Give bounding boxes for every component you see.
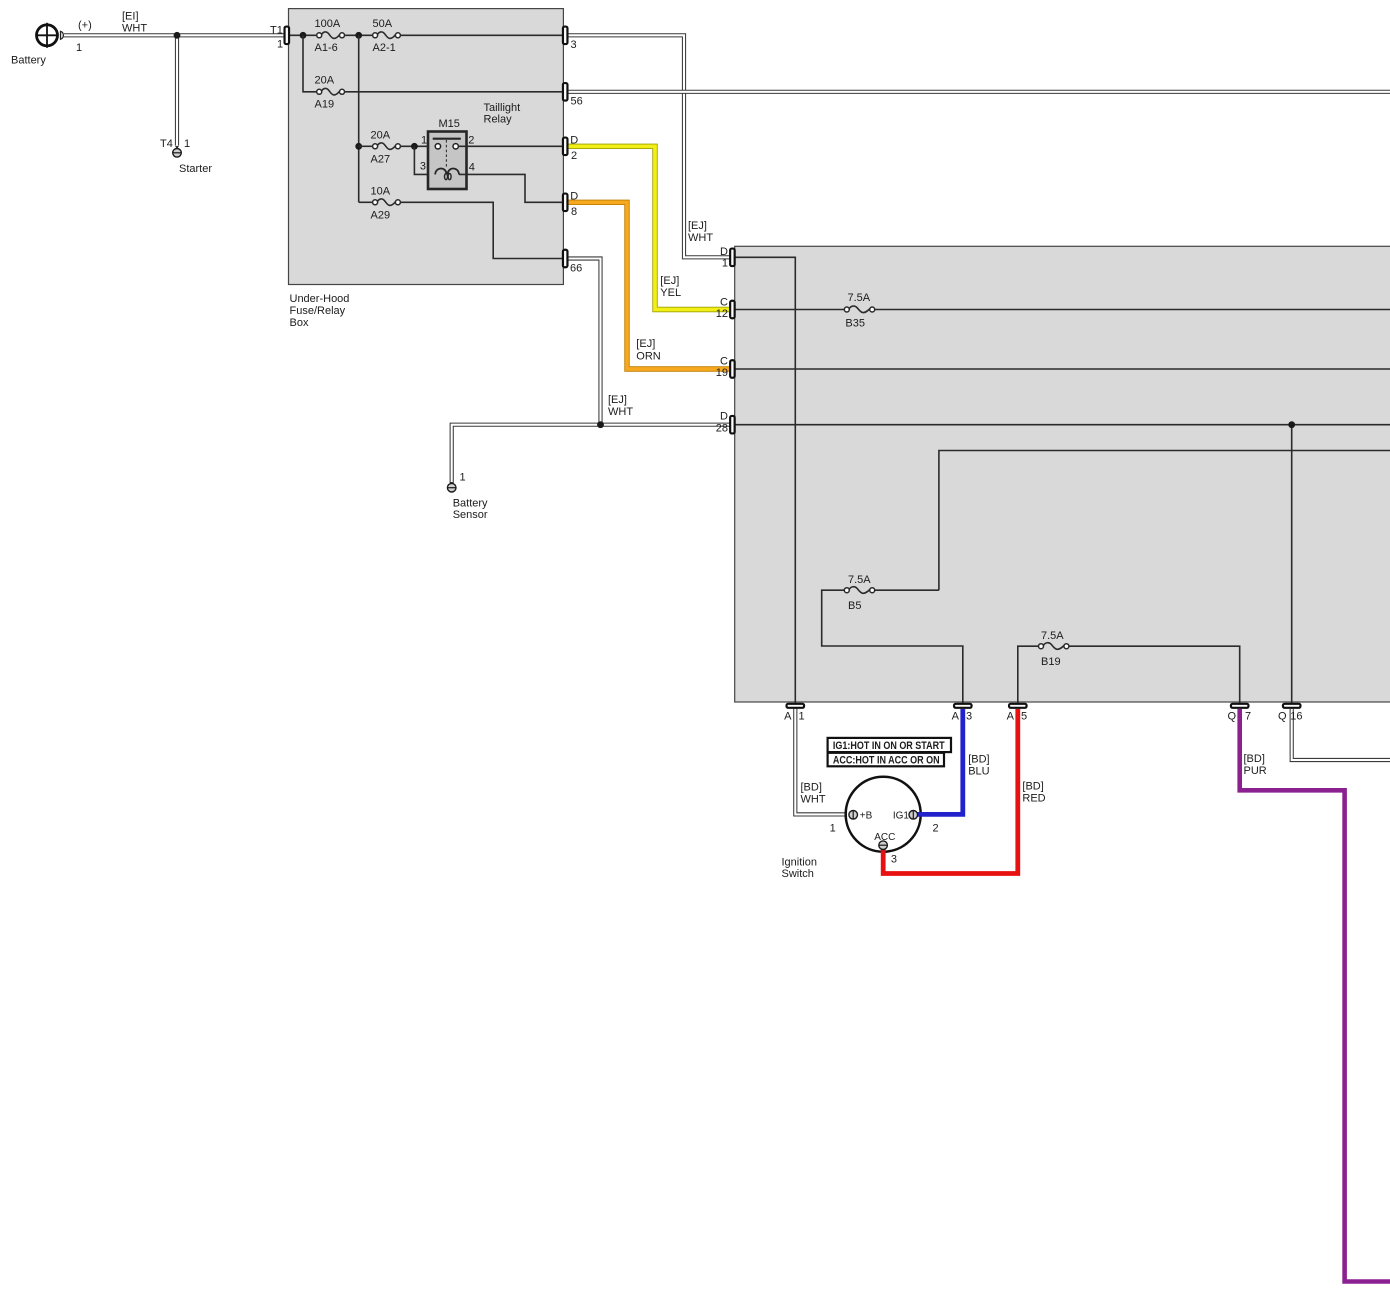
svg-text:WHT: WHT — [122, 23, 147, 35]
svg-text:4: 4 — [469, 162, 475, 174]
yellow wire D2 to C12 — [566, 146, 732, 309]
svg-text:1: 1 — [277, 39, 283, 51]
orange wire D8 to C19 — [566, 202, 732, 369]
under-hood fuse/relay box label — [290, 293, 350, 329]
pin C19 — [716, 356, 735, 380]
ignition switch caption — [782, 857, 817, 881]
svg-text:2: 2 — [468, 135, 474, 147]
svg-text:[EJ]: [EJ] — [636, 338, 655, 350]
svg-text:(+): (+) — [78, 20, 92, 32]
svg-text:20A: 20A — [315, 75, 335, 87]
svg-text:Ignition: Ignition — [782, 857, 817, 869]
ignition switch terminal labels — [860, 811, 910, 843]
fuse 7.5A B5 — [844, 574, 874, 612]
svg-text:7.5A: 7.5A — [848, 574, 871, 586]
svg-text:3: 3 — [571, 39, 577, 51]
svg-text:[EJ]: [EJ] — [688, 220, 707, 232]
fuse 10A A29 — [371, 185, 401, 221]
svg-text:28: 28 — [716, 422, 728, 434]
svg-text:10A: 10A — [371, 185, 391, 197]
svg-text:3: 3 — [891, 853, 897, 865]
svg-text:1: 1 — [830, 823, 836, 835]
pin A1 — [784, 704, 804, 723]
wire D1 to A1 — [732, 257, 795, 703]
battery B1 — [36, 23, 63, 48]
wire T1 to 100A fuse — [286, 34, 317, 36]
connector T1 labels — [270, 25, 283, 51]
svg-text:1: 1 — [76, 42, 82, 54]
wire down to 10A A29 — [359, 201, 373, 203]
battery label — [11, 20, 92, 67]
svg-text:M15: M15 — [439, 118, 460, 130]
svg-text:A: A — [784, 711, 792, 723]
wire A29 fuse to pin 66 — [401, 202, 564, 258]
fuse 50A A2-1 — [373, 18, 401, 54]
svg-text:56: 56 — [571, 95, 583, 107]
svg-text:A: A — [1007, 711, 1015, 723]
svg-text:Battery: Battery — [453, 498, 488, 510]
ignition switch terminal ACC — [879, 841, 888, 850]
pin A5 — [1007, 704, 1027, 723]
wire D28 row — [732, 424, 1390, 426]
svg-text:1: 1 — [421, 135, 427, 147]
pin D1 — [720, 246, 735, 269]
svg-text:Under-Hood: Under-Hood — [290, 293, 350, 305]
svg-text:WHT: WHT — [688, 232, 713, 244]
svg-text:A29: A29 — [371, 210, 391, 222]
wire 50A fuse to pin 3 — [401, 34, 564, 36]
pin 3 — [563, 27, 577, 51]
wire row y450 from right edge down to B5 — [874, 451, 1390, 591]
svg-text:1: 1 — [460, 472, 466, 484]
wire label [BD] WHT — [801, 782, 826, 806]
svg-text:2: 2 — [571, 150, 577, 162]
node junction battery/starter — [174, 32, 181, 39]
svg-text:B35: B35 — [845, 318, 865, 330]
svg-text:Switch: Switch — [782, 868, 814, 880]
svg-text:D: D — [570, 135, 578, 147]
node junction at A27 tap — [355, 32, 362, 39]
svg-text:T4: T4 — [160, 138, 173, 150]
taillight relay M15 — [428, 132, 467, 190]
wire label [EJ] WHT (battery sensor) — [608, 394, 633, 418]
purple wire Q7 down — [1240, 709, 1390, 1282]
svg-text:Relay: Relay — [484, 114, 513, 126]
relay labels — [420, 118, 475, 174]
wire label [EJ] ORN — [636, 338, 661, 362]
wire label [BD] PUR — [1244, 753, 1267, 777]
wire down to A27/A29 — [358, 35, 360, 202]
wire to 20A A27 fuse — [359, 145, 373, 147]
pin C12 — [716, 297, 735, 321]
svg-text:Q: Q — [1227, 711, 1236, 723]
ignition switch terminal IG1 — [909, 810, 918, 819]
pin Q16 — [1278, 704, 1303, 723]
fuse 20A A27 — [371, 129, 401, 165]
pin D8 — [563, 191, 578, 218]
svg-text:Taillight: Taillight — [484, 102, 521, 114]
wire label [BD] BLU — [968, 754, 989, 778]
ignition switch circle — [846, 777, 921, 852]
svg-text:IG1:HOT IN ON OR START: IG1:HOT IN ON OR START — [833, 740, 945, 752]
svg-text:RED: RED — [1022, 792, 1045, 804]
svg-text:100A: 100A — [315, 18, 341, 30]
battery sensor labels — [453, 472, 488, 522]
wire relay pin 2 to pin D2 — [458, 145, 563, 147]
white wire pin 66 down — [566, 259, 601, 425]
svg-text:1: 1 — [722, 258, 728, 270]
wire relay pin 4 to pin D8 — [459, 174, 563, 202]
svg-text:Starter: Starter — [179, 163, 212, 175]
svg-text:A2-1: A2-1 — [373, 42, 396, 54]
svg-text:ORN: ORN — [636, 350, 661, 362]
svg-text:7.5A: 7.5A — [848, 292, 871, 304]
ignition switch terminal +B — [849, 810, 858, 819]
pin A3 — [952, 704, 972, 723]
svg-text:A1-6: A1-6 — [315, 42, 338, 54]
svg-text:Battery: Battery — [11, 55, 46, 67]
svg-text:IG1: IG1 — [893, 811, 910, 822]
pin Q7 — [1227, 704, 1251, 723]
svg-text:5: 5 — [1021, 711, 1027, 723]
svg-text:19: 19 — [716, 367, 728, 379]
node junction 66/D28 — [597, 421, 604, 428]
wire down to A19 — [303, 35, 317, 92]
node junction D28/Q16 — [1288, 421, 1295, 428]
svg-text:B19: B19 — [1041, 656, 1061, 668]
fuse 7.5A B19 — [1039, 630, 1069, 668]
svg-text:A: A — [952, 711, 960, 723]
svg-text:[EJ]: [EJ] — [660, 275, 679, 287]
svg-text:ACC: ACC — [874, 832, 895, 843]
svg-text:[BD]: [BD] — [1022, 780, 1043, 792]
svg-text:D: D — [720, 246, 728, 258]
svg-text:BLU: BLU — [968, 766, 989, 778]
svg-text:50A: 50A — [373, 18, 393, 30]
svg-text:ACC:HOT IN ACC OR ON: ACC:HOT IN ACC OR ON — [833, 755, 940, 767]
svg-text:+B: +B — [860, 811, 873, 822]
svg-text:Box: Box — [290, 317, 309, 329]
svg-text:[EI]: [EI] — [122, 11, 139, 23]
svg-text:3: 3 — [966, 711, 972, 723]
svg-text:A19: A19 — [315, 98, 335, 110]
white wire A1 to +B — [795, 709, 847, 815]
svg-text:8: 8 — [571, 206, 577, 218]
svg-text:Q: Q — [1278, 711, 1287, 723]
wire B19 to Q7 — [1069, 646, 1240, 703]
wire label [EI] WHT — [122, 11, 147, 35]
node junction relay coil tap — [411, 143, 418, 150]
wire C19 row — [732, 368, 1390, 370]
svg-text:WHT: WHT — [608, 406, 633, 418]
connector T1 — [285, 27, 290, 45]
svg-text:Fuse/Relay: Fuse/Relay — [290, 305, 346, 317]
caution box IG1 — [828, 738, 951, 752]
svg-text:16: 16 — [1290, 711, 1302, 723]
wire A5 up to B19 — [1018, 646, 1039, 703]
wire battery to T1 (white) — [64, 33, 284, 37]
fuse 20A A19 — [315, 75, 345, 111]
wire to starter (white) — [175, 35, 179, 149]
svg-text:[BD]: [BD] — [968, 754, 989, 766]
wire D28 junction to Q16 — [1291, 425, 1293, 704]
wire A27 fuse to relay pin 1 — [401, 145, 436, 147]
svg-text:C: C — [720, 356, 728, 368]
wire B5 to A3 — [822, 590, 963, 703]
white wire pin 3 to pin D1 — [566, 35, 730, 257]
ignition switch pin numbers — [830, 823, 939, 866]
svg-text:B5: B5 — [848, 600, 861, 612]
svg-text:[BD]: [BD] — [1244, 753, 1265, 765]
wire label [EJ] WHT (to D1) — [688, 220, 713, 244]
svg-text:66: 66 — [570, 263, 582, 275]
svg-text:Sensor: Sensor — [453, 509, 488, 521]
svg-text:20A: 20A — [371, 129, 391, 141]
svg-text:D: D — [720, 411, 728, 423]
fuse 7.5A B35 — [844, 292, 874, 330]
white wire battery sensor to D28 — [450, 425, 730, 486]
starter labels — [160, 138, 212, 175]
battery sensor terminal — [447, 483, 456, 492]
wire label [EJ] YEL — [660, 275, 681, 299]
pin D28 — [716, 411, 735, 435]
svg-text:7.5A: 7.5A — [1041, 630, 1064, 642]
pin 66 — [563, 250, 582, 275]
svg-text:WHT: WHT — [801, 794, 826, 806]
svg-text:C: C — [720, 297, 728, 309]
svg-text:YEL: YEL — [660, 287, 681, 299]
wire C12 row left — [732, 309, 844, 311]
pin 56 — [563, 83, 583, 107]
white wire Q16 to right edge — [1292, 709, 1390, 760]
svg-text:1: 1 — [799, 711, 805, 723]
svg-text:A27: A27 — [371, 154, 391, 166]
power distribution box (right) — [735, 246, 1390, 702]
fuse 100A A1-6 — [315, 18, 345, 54]
under-hood fuse/relay box — [289, 9, 564, 285]
wire B35 to right edge — [874, 309, 1390, 311]
red wire ACC to A5 — [883, 709, 1018, 874]
svg-text:7: 7 — [1245, 711, 1251, 723]
node junction at A19 tap — [300, 32, 307, 39]
svg-text:12: 12 — [716, 308, 728, 320]
white wire pin 56 to right edge — [566, 90, 1390, 94]
svg-text:3: 3 — [420, 161, 426, 173]
svg-text:T1: T1 — [270, 25, 283, 37]
svg-text:[BD]: [BD] — [801, 782, 822, 794]
blue wire IG1 to A3 — [916, 709, 963, 815]
pin D2 — [563, 135, 578, 162]
node junction at A27 row — [355, 143, 362, 150]
svg-text:PUR: PUR — [1244, 765, 1267, 777]
wire between fuses — [345, 34, 373, 36]
wire A19 fuse to pin 56 — [345, 91, 564, 93]
starter terminal 1 — [173, 149, 182, 158]
svg-text:D: D — [570, 191, 578, 203]
caution box ACC — [828, 753, 944, 767]
wire label [BD] RED — [1022, 780, 1045, 804]
svg-text:1: 1 — [184, 138, 190, 150]
svg-text:2: 2 — [933, 823, 939, 835]
wire to relay pin 3 — [414, 146, 435, 174]
taillight relay caption — [484, 102, 521, 126]
svg-text:[EJ]: [EJ] — [608, 394, 627, 406]
